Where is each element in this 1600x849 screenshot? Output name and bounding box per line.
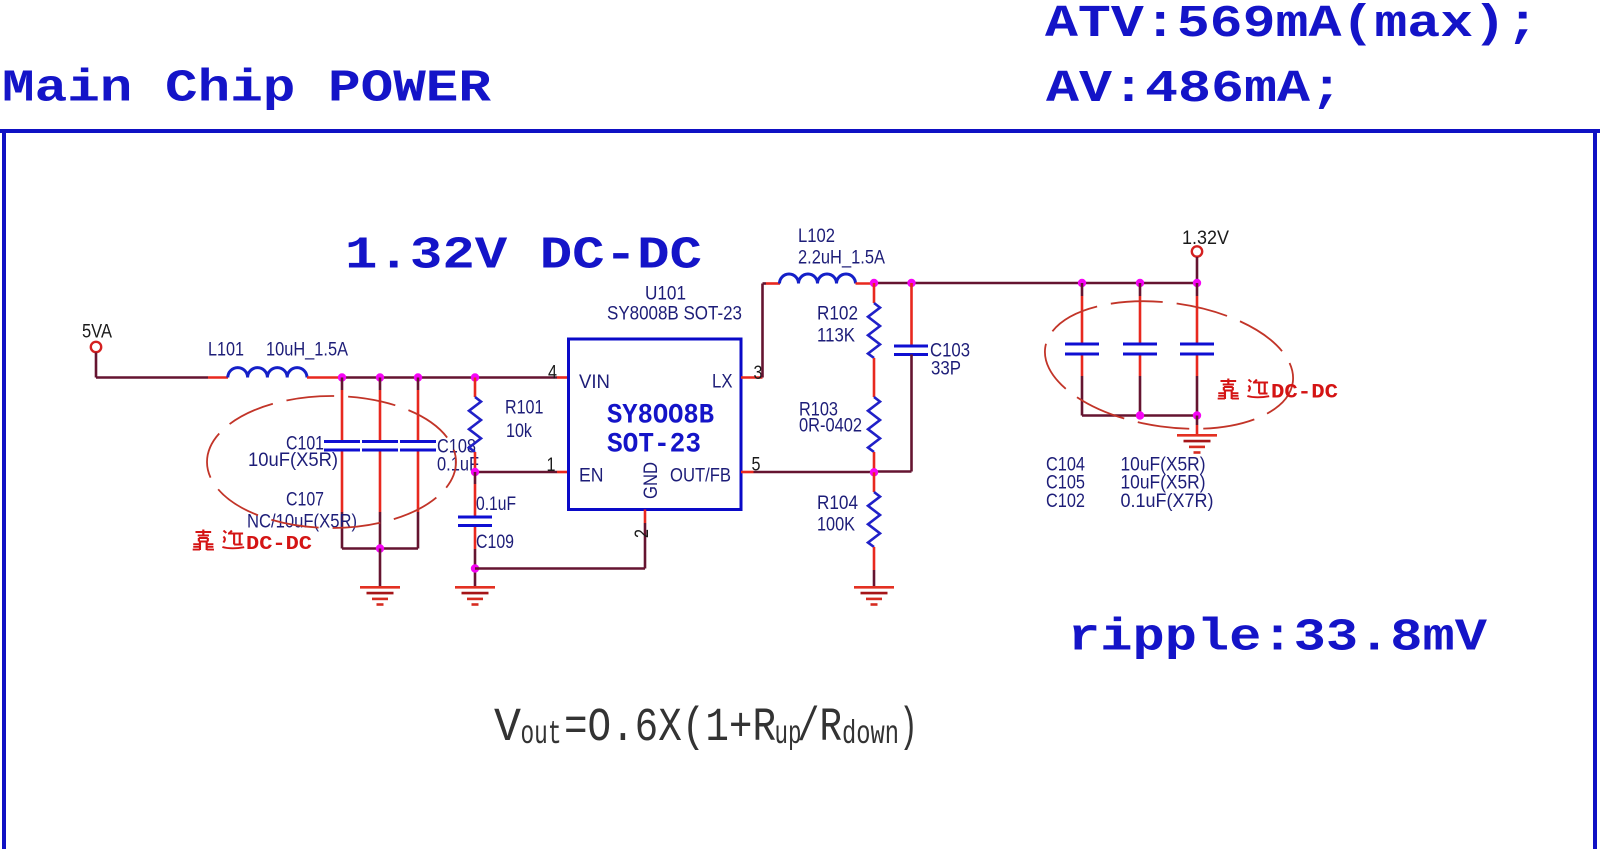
svg-text:AV:486mA;: AV:486mA;: [1046, 64, 1343, 115]
svg-text:R104: R104: [817, 493, 858, 514]
svg-text:/R: /R: [797, 702, 842, 755]
label C109: [476, 532, 514, 553]
pin L101 right lead: [307, 376, 342, 379]
svg-text:EN: EN: [579, 466, 604, 487]
svg-text:1.32V DC-DC: 1.32V DC-DC: [345, 231, 702, 282]
label NC/10uF(X5R): [247, 512, 357, 533]
capacitor C102: [1180, 283, 1214, 416]
label C102 value: [1121, 491, 1214, 512]
wire VIN rail: [342, 376, 557, 379]
note ATV current: [1045, 0, 1539, 50]
svg-text:R102: R102: [817, 304, 858, 325]
svg-text:OUT/FB: OUT/FB: [670, 466, 731, 487]
svg-text:C109: C109: [476, 532, 514, 553]
pin EN stub: [557, 471, 569, 474]
label C105 value: [1121, 473, 1206, 494]
annotation ellipse right (dashed): [1037, 286, 1302, 444]
svg-text:SOT-23: SOT-23: [607, 429, 701, 460]
svg-text:3: 3: [754, 363, 763, 384]
wire right cap bottom bus: [1082, 414, 1197, 417]
pin VIN stub: [557, 376, 569, 379]
label L102: [798, 226, 835, 247]
resistor R101: [469, 378, 481, 473]
annotation ellipse left (dashed): [207, 396, 456, 528]
wire 1.32V stem: [1196, 257, 1199, 283]
svg-text:Main Chip POWER: Main Chip POWER: [2, 64, 491, 115]
svg-text:down: down: [842, 716, 899, 753]
label pin 4: [548, 363, 557, 384]
node junction dots output rail: [1078, 279, 1201, 287]
label R102: [817, 304, 858, 325]
capacitor C109: [458, 472, 492, 586]
wire OUT/FB rail: [754, 471, 875, 474]
svg-text:1: 1: [547, 455, 556, 476]
ground C109: [455, 587, 495, 604]
label C108: [437, 437, 476, 458]
wire right bus to ground: [1196, 416, 1199, 426]
wire 5VA stem: [95, 353, 98, 378]
label 0.1uF (C109): [476, 494, 516, 515]
node junction C109/GND pin: [471, 564, 479, 572]
label SY8008B SOT-23: [607, 304, 742, 325]
svg-text:ripple:33.8mV: ripple:33.8mV: [1068, 613, 1487, 664]
ground right caps: [1177, 435, 1217, 452]
svg-text:0.1uF(X7R): 0.1uF(X7R): [1121, 491, 1214, 512]
title Main Chip POWER: [2, 64, 491, 115]
label 113K: [817, 326, 855, 347]
pin GND stub wire: [475, 510, 645, 569]
svg-text:GND: GND: [641, 462, 662, 499]
pin L101 left lead: [208, 376, 228, 379]
capacitor C101: [324, 378, 360, 549]
label pin 1: [547, 455, 556, 476]
label C103: [930, 341, 970, 362]
capacitor C107 (middle column): [362, 378, 398, 549]
svg-text:SY8008B SOT-23: SY8008B SOT-23: [607, 304, 742, 325]
node junction dots right bus: [1136, 411, 1201, 419]
label L101: [208, 340, 244, 361]
wire left bus to ground: [379, 549, 382, 587]
resistor R104: [868, 472, 880, 586]
pin L102 right lead: [856, 282, 875, 285]
label 10uF(X5R): [248, 450, 338, 471]
label 100K: [817, 515, 855, 536]
svg-text:10uH_1.5A: 10uH_1.5A: [266, 340, 348, 361]
svg-text:L102: L102: [798, 226, 835, 247]
op-amp U101 IC box SY8008B: [569, 339, 742, 510]
svg-text:100K: 100K: [817, 515, 855, 536]
svg-text:0.1uF: 0.1uF: [476, 494, 516, 515]
ground R104: [854, 587, 894, 604]
node junction dots input rail: [338, 373, 479, 381]
inductor L101: [228, 368, 307, 378]
svg-text:33P: 33P: [931, 359, 961, 380]
label pin 5: [752, 455, 761, 476]
label 33P: [931, 359, 961, 380]
capacitor C105: [1123, 283, 1157, 416]
resistor R102: [868, 283, 880, 397]
wire LX rail to output: [874, 282, 1197, 285]
svg-text:V: V: [494, 702, 521, 755]
note AV current: [1046, 64, 1343, 115]
wire 5VA to L101: [96, 376, 208, 379]
svg-text:113K: 113K: [817, 326, 855, 347]
node junction dots LX rail: [870, 279, 916, 287]
svg-text:VIN: VIN: [579, 372, 610, 393]
pin OUT/FB stub: [741, 471, 754, 474]
label 2.2uH_1.5A: [798, 248, 885, 269]
inductor L102: [780, 274, 856, 284]
capacitor C108 (right column): [400, 378, 436, 549]
label C104: [1046, 454, 1085, 475]
capacitor C104: [1065, 283, 1099, 416]
svg-text:0R-0402: 0R-0402: [799, 416, 862, 437]
svg-text:R101: R101: [505, 397, 543, 418]
svg-text:2: 2: [632, 529, 653, 538]
svg-text:ATV:569mA(max);: ATV:569mA(max);: [1045, 0, 1539, 50]
svg-text:=O.6X(1+R: =O.6X(1+R: [564, 702, 776, 755]
wire left cap bottom bus: [342, 547, 418, 550]
ground left caps: [360, 587, 400, 604]
node 5VA port: [82, 322, 112, 353]
pin LX stub: [741, 376, 763, 379]
svg-text:): ): [899, 702, 918, 755]
formula Vout=0.6X(1+Rup/Rdown): [494, 702, 918, 755]
label pin 3: [754, 363, 763, 384]
svg-text:10uF(X5R): 10uF(X5R): [248, 450, 338, 471]
label C107: [286, 490, 324, 511]
label C102: [1046, 491, 1085, 512]
annotation 靠近DC-DC right: [1218, 379, 1338, 405]
svg-text:SY8OO8B: SY8OO8B: [607, 400, 714, 431]
svg-text:NC/10uF(X5R): NC/10uF(X5R): [247, 512, 357, 533]
node junction left bus: [376, 544, 384, 552]
svg-text:10k: 10k: [506, 421, 532, 442]
svg-text:C107: C107: [286, 490, 324, 511]
wire EN rail: [475, 471, 557, 474]
label pin 2: [632, 529, 653, 538]
title 1.32V DC-DC: [345, 231, 702, 282]
label C104 value: [1121, 454, 1206, 475]
label U101: [645, 284, 686, 305]
label R101: [505, 397, 543, 418]
label 0.1uF (C108): [437, 454, 479, 475]
label C105: [1046, 473, 1085, 494]
svg-text:1.32V: 1.32V: [1182, 228, 1229, 249]
label C101: [286, 434, 324, 455]
node 1.32V port: [1182, 228, 1229, 257]
svg-text:C102: C102: [1046, 491, 1085, 512]
node junction OUT/FB: [870, 468, 878, 476]
wire LX riser: [763, 284, 767, 378]
resistor R103: [868, 397, 880, 472]
label R104: [817, 493, 858, 514]
svg-text:L101: L101: [208, 340, 244, 361]
svg-text:DC-DC: DC-DC: [1271, 382, 1338, 405]
label 0R-0402: [799, 416, 862, 437]
svg-text:4: 4: [548, 363, 557, 384]
svg-text:U101: U101: [645, 284, 686, 305]
annotation 靠近DC-DC left: [193, 530, 312, 556]
pin L102 left lead: [766, 282, 780, 285]
label R103: [799, 400, 838, 421]
svg-text:5VA: 5VA: [82, 322, 112, 343]
capacitor C103: [874, 283, 928, 472]
note ripple: [1068, 613, 1487, 664]
svg-text:out: out: [521, 716, 562, 753]
node junction EN/R101/C109: [471, 468, 479, 476]
label 10uH_1.5A: [266, 340, 348, 361]
label 10k: [506, 421, 532, 442]
svg-text:DC-DC: DC-DC: [246, 533, 312, 555]
svg-text:2.2uH_1.5A: 2.2uH_1.5A: [798, 248, 885, 269]
svg-text:LX: LX: [712, 372, 733, 393]
